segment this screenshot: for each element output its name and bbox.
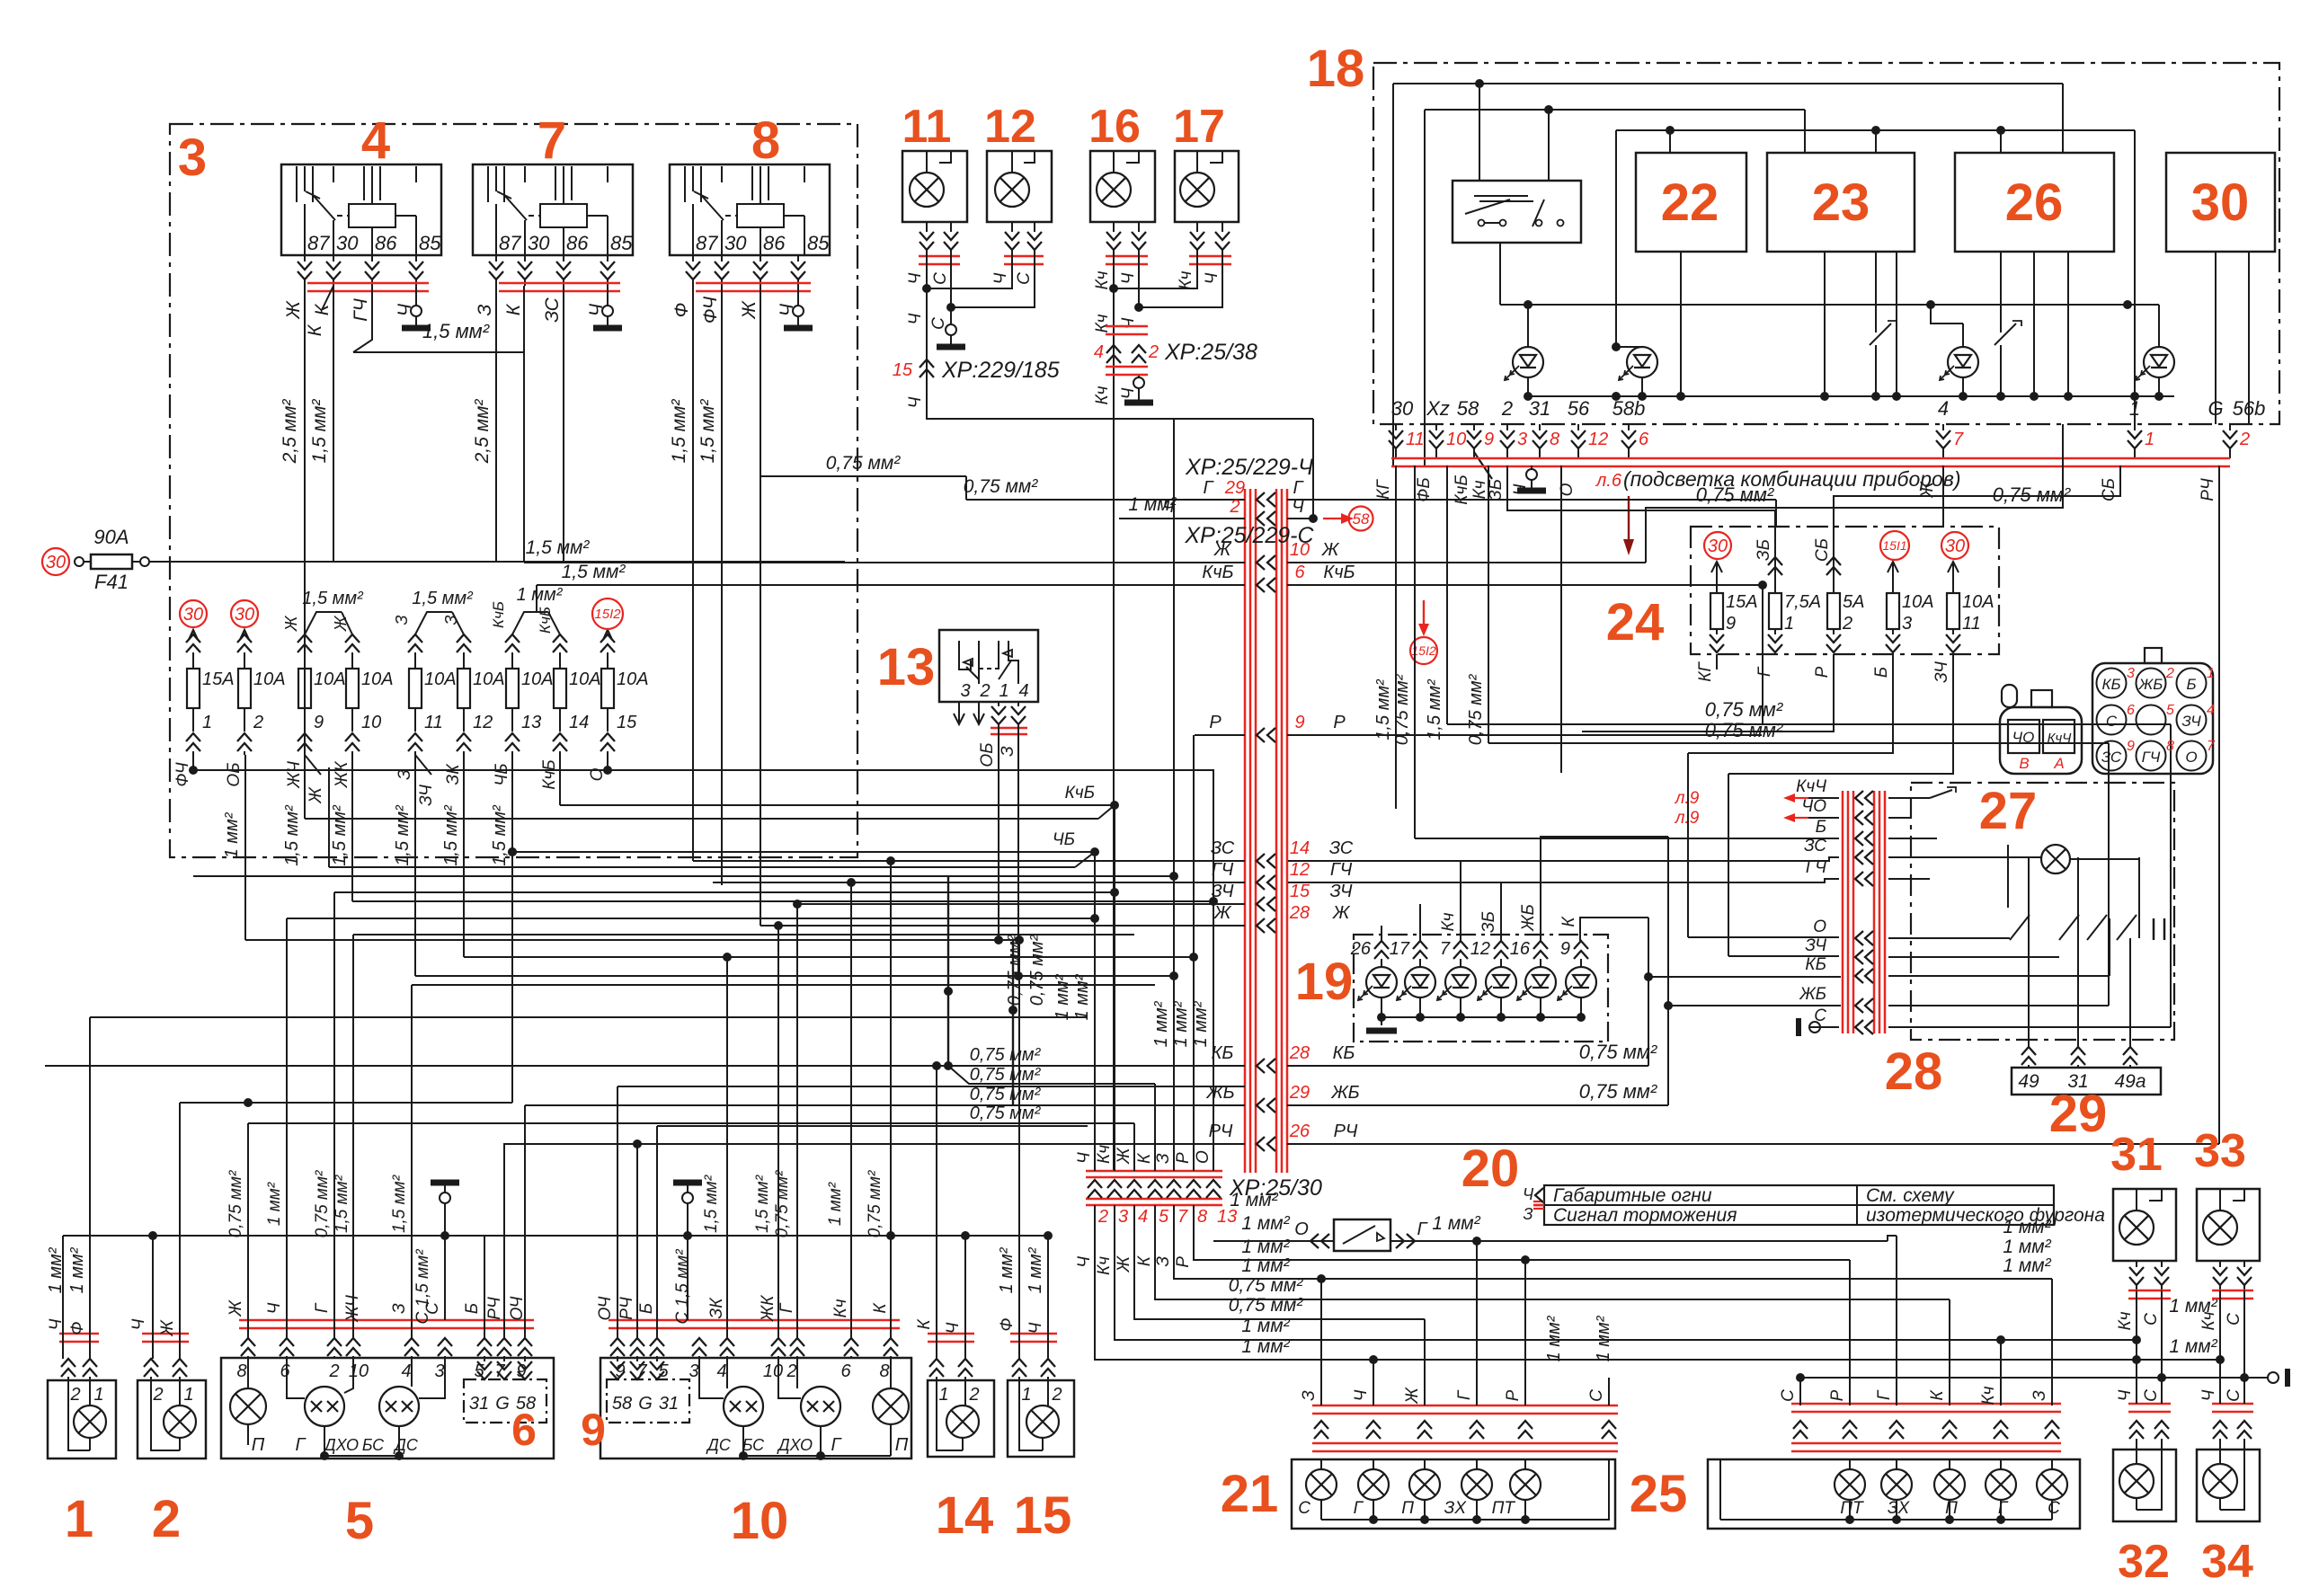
wire from KchB node down xyxy=(1762,585,1764,724)
svg-text:30: 30 xyxy=(1708,536,1728,556)
svg-text:2: 2 xyxy=(1051,1385,1062,1405)
svg-text:ЧО: ЧО xyxy=(2012,729,2035,746)
lamp 1 wires xyxy=(61,1359,76,1367)
box27 row КчЧ xyxy=(1855,791,1863,805)
cluster5 C ground xyxy=(444,1203,446,1338)
svg-text:12: 12 xyxy=(1470,939,1490,959)
svg-text:9: 9 xyxy=(1726,614,1736,634)
svg-text:86: 86 xyxy=(375,232,397,254)
9-pin connector pinout xyxy=(2092,663,2213,774)
svg-text:Ж: Ж xyxy=(739,300,760,320)
svg-text:Кч: Кч xyxy=(1093,270,1112,289)
bracket feeds F11/F12 xyxy=(415,612,452,634)
svg-text:9: 9 xyxy=(1484,430,1494,449)
wire relay8-87 down xyxy=(692,286,694,861)
svg-text:КчЧ: КчЧ xyxy=(1796,777,1826,796)
lamp11 wires xyxy=(926,222,928,232)
svg-text:1 мм²: 1 мм² xyxy=(1230,1190,1278,1210)
lamp 34 box xyxy=(2197,1450,2260,1521)
svg-text:0,75 мм²: 0,75 мм² xyxy=(1579,1080,1657,1103)
svg-text:0,75 мм²: 0,75 мм² xyxy=(773,1170,792,1237)
wire box30 downs xyxy=(2215,252,2217,424)
svg-text:9: 9 xyxy=(1294,713,1304,732)
vertical 1127 xyxy=(1012,940,1014,1105)
svg-text:28: 28 xyxy=(1289,1043,1310,1063)
svg-text:1 мм²: 1 мм² xyxy=(1241,1213,1290,1234)
svg-text:С: С xyxy=(2225,1389,2243,1402)
lamp 14 box xyxy=(928,1380,994,1457)
svg-text:0,75 мм²: 0,75 мм² xyxy=(1229,1295,1303,1316)
svg-text:1,5 мм²: 1,5 мм² xyxy=(562,562,626,582)
lamp 32 box xyxy=(2113,1450,2176,1521)
svg-text:1: 1 xyxy=(1021,1385,1031,1405)
box19 ground xyxy=(1381,1017,1382,1025)
switch 20 row O-G xyxy=(1213,1240,1334,1242)
svg-text:ЗЧ: ЗЧ xyxy=(1329,882,1353,901)
svg-text:З: З xyxy=(1300,1390,1319,1401)
row Zh 10 xyxy=(524,562,1245,563)
cluster5 OCh riser xyxy=(524,1105,526,1338)
svg-text:10: 10 xyxy=(1290,540,1310,560)
svg-text:ФЧ: ФЧ xyxy=(173,762,192,786)
svg-text:7: 7 xyxy=(2207,739,2216,754)
svg-text:КчБ: КчБ xyxy=(537,607,554,634)
svg-text:30: 30 xyxy=(1391,397,1414,420)
svg-text:8: 8 xyxy=(1197,1207,1207,1227)
lamp12 wires xyxy=(1011,222,1013,232)
svg-text:30: 30 xyxy=(724,232,747,254)
headlamp cluster 5 box xyxy=(221,1358,554,1459)
svg-text:л.9: л.9 xyxy=(1675,789,1700,808)
svg-text:ДХО: ДХО xyxy=(323,1436,359,1454)
lamp 31 box xyxy=(2113,1189,2176,1261)
row 1375 main xyxy=(63,1235,1048,1237)
svg-text:ЗС: ЗС xyxy=(1329,838,1354,858)
svg-text:12: 12 xyxy=(473,713,493,732)
svg-text:ПТ: ПТ xyxy=(1492,1499,1516,1518)
svg-text:Ж: Ж xyxy=(1403,1387,1422,1405)
svg-text:85: 85 xyxy=(419,232,441,254)
svg-text:С: С xyxy=(929,317,948,330)
cluster5 lamp G/DXO xyxy=(305,1387,344,1426)
svg-text:15А: 15А xyxy=(202,669,235,689)
svg-text:ЗС: ЗС xyxy=(1804,837,1826,856)
row 1022 xyxy=(287,918,1095,919)
svg-text:ЖЧ: ЖЧ xyxy=(285,761,304,789)
svg-text:ЖБ: ЖБ xyxy=(2138,676,2163,693)
lamp 16 box xyxy=(1090,151,1155,222)
svg-text:ФЧ: ФЧ xyxy=(700,296,721,324)
svg-text:С: С xyxy=(2142,1313,2161,1326)
wire risers xyxy=(1479,84,1480,181)
svg-text:С: С xyxy=(1015,272,1034,285)
svg-text:Кч: Кч xyxy=(1979,1386,1998,1405)
svg-text:0,75 мм²: 0,75 мм² xyxy=(1696,483,1774,506)
svg-text:1: 1 xyxy=(202,713,212,732)
cluster21 lamp П xyxy=(1409,1469,1440,1500)
svg-text:Кч: Кч xyxy=(1439,912,1458,931)
svg-text:30: 30 xyxy=(336,232,359,254)
LED pin 12 xyxy=(1494,941,1508,949)
box27 capacitor sym xyxy=(2153,918,2155,940)
svg-text:56b: 56b xyxy=(2233,397,2266,420)
riser 4-wire xyxy=(1942,465,1944,527)
row 1122 ZhK10 xyxy=(463,956,465,958)
cluster21 feed wires xyxy=(1320,1279,1322,1405)
svg-text:4: 4 xyxy=(361,111,390,170)
svg-text:КчБ: КчБ xyxy=(490,601,507,628)
svg-text:ЗК: ЗК xyxy=(707,1297,726,1319)
svg-text:1 мм²: 1 мм² xyxy=(1594,1315,1613,1361)
svg-text:Ж: Ж xyxy=(1115,1147,1133,1165)
svg-text:З: З xyxy=(390,1303,409,1314)
svg-text:1 мм²: 1 мм² xyxy=(1171,1000,1191,1047)
svg-text:29: 29 xyxy=(1289,1083,1310,1103)
svg-text:2: 2 xyxy=(152,1385,163,1405)
row 1003 ZhK xyxy=(352,900,1213,902)
row O 857 xyxy=(193,769,1214,771)
rear lamp cluster 21 box xyxy=(1292,1459,1615,1529)
svg-text:1 мм²: 1 мм² xyxy=(517,585,564,605)
KB net riser xyxy=(1648,918,1649,1066)
row 827 xyxy=(1488,742,2109,744)
box19 feed wires xyxy=(1381,926,1382,941)
svg-text:К: К xyxy=(871,1302,890,1314)
svg-text:17: 17 xyxy=(1390,939,1410,959)
svg-text:Ч: Ч xyxy=(129,1318,148,1330)
svg-text:изотермического фургона: изотермического фургона xyxy=(1866,1205,2105,1226)
svg-text:17: 17 xyxy=(1173,101,1225,153)
box19 bottom bus xyxy=(1381,1016,1581,1018)
svg-text:В: В xyxy=(2019,755,2029,772)
svg-text:11: 11 xyxy=(1962,614,1981,634)
box27 switch top xyxy=(1930,790,1952,798)
svg-text:30: 30 xyxy=(1945,536,1965,556)
svg-text:6: 6 xyxy=(2127,703,2135,718)
red circle 30 above F2 xyxy=(231,600,258,627)
svg-text:Ж: Ж xyxy=(1213,903,1232,923)
svg-text:Ф: Ф xyxy=(68,1321,87,1334)
lamp 2 box xyxy=(138,1380,206,1459)
svg-text:6: 6 xyxy=(1639,430,1649,449)
svg-text:10А: 10А xyxy=(253,669,286,689)
cluster10 C ground xyxy=(687,1203,689,1320)
svg-text:6: 6 xyxy=(280,1361,290,1381)
svg-text:Ч: Ч xyxy=(2199,1389,2218,1401)
cluster21 lamp ПТ xyxy=(1510,1469,1541,1500)
svg-text:25: 25 xyxy=(1630,1465,1688,1523)
lamp16 ground xyxy=(1138,376,1140,377)
svg-text:0,75 мм²: 0,75 мм² xyxy=(1993,483,2071,506)
box27 row Б xyxy=(1855,831,1863,846)
2-pin connector pinout xyxy=(2000,707,2082,774)
lamp 11 box xyxy=(902,151,967,222)
svg-text:Ч: Ч xyxy=(906,272,925,284)
svg-text:10А: 10А xyxy=(473,669,505,689)
relay K8 pin wires xyxy=(692,255,694,262)
svg-text:86: 86 xyxy=(763,232,786,254)
svg-text:23: 23 xyxy=(1812,173,1870,232)
cluster25 lamp П xyxy=(1934,1469,1965,1500)
svg-text:Ч: Ч xyxy=(1075,1256,1094,1268)
lamp 15 box xyxy=(1008,1380,1074,1457)
svg-text:0,75 мм²: 0,75 мм² xyxy=(1229,1275,1303,1296)
relay K7 pin85 ground xyxy=(607,286,609,306)
cluster5 bottom bus xyxy=(248,1444,445,1446)
row 1040 xyxy=(353,934,1134,935)
svg-text:30: 30 xyxy=(235,605,254,625)
svg-text:ГЧ: ГЧ xyxy=(1806,858,1826,877)
svg-text:4: 4 xyxy=(716,1361,726,1381)
wire Ch bus to connector xyxy=(927,365,1313,419)
svg-text:5А: 5А xyxy=(1843,592,1864,612)
svg-text:10А: 10А xyxy=(521,669,554,689)
svg-text:2: 2 xyxy=(1097,1207,1108,1227)
connector chevrons below box18 xyxy=(1395,424,1397,430)
svg-text:Р: Р xyxy=(1828,1389,1847,1401)
cluster25 lamp С xyxy=(2037,1469,2067,1500)
box27 row ЧО xyxy=(1855,811,1863,825)
svg-text:Ч: Ч xyxy=(906,396,925,408)
svg-text:КБ: КБ xyxy=(1212,1043,1234,1063)
svg-text:1,5 мм²: 1,5 мм² xyxy=(309,399,330,464)
LED pin 16 xyxy=(1533,941,1548,949)
sub connector 9 xyxy=(617,1358,618,1361)
svg-text:Б: Б xyxy=(1872,667,1891,678)
svg-text:СБ: СБ xyxy=(2100,478,2119,501)
svg-text:2: 2 xyxy=(2165,666,2174,681)
row ChB 948 xyxy=(512,851,1095,853)
fuse box 24 dash-dot xyxy=(1691,527,1999,654)
svg-text:12: 12 xyxy=(984,101,1036,153)
svg-text:1 мм²: 1 мм² xyxy=(2003,1255,2051,1276)
O feed to box27 xyxy=(1687,753,1689,937)
svg-text:14: 14 xyxy=(569,713,589,732)
row ZhB 29 xyxy=(525,1104,1245,1106)
fuse F41 90A xyxy=(75,557,84,566)
svg-text:1: 1 xyxy=(65,1490,93,1548)
svg-text:ДХО: ДХО xyxy=(777,1436,813,1454)
riser verticals from box18 bus xyxy=(1395,465,1397,809)
svg-text:Ж: Ж xyxy=(332,615,350,632)
svg-text:ОЧ: ОЧ xyxy=(508,1296,527,1320)
svg-text:ЧБ: ЧБ xyxy=(493,763,511,785)
svg-text:5: 5 xyxy=(658,1361,669,1381)
svg-text:87: 87 xyxy=(696,232,718,254)
svg-text:Ф: Ф xyxy=(998,1317,1017,1331)
cluster21 lamp С xyxy=(1306,1469,1337,1500)
red wire bundle vertical xyxy=(1244,489,1247,1173)
svg-text:Ч: Ч xyxy=(265,1302,284,1314)
red circle 1512 above F15 xyxy=(592,598,623,629)
unit box 23 xyxy=(1767,153,1915,252)
svg-text:0,75 мм²: 0,75 мм² xyxy=(1466,673,1486,745)
svg-text:ЗХ: ЗХ xyxy=(1444,1499,1468,1518)
svg-text:1: 1 xyxy=(2207,666,2215,681)
svg-text:0,75 мм²: 0,75 мм² xyxy=(970,1065,1042,1085)
svg-text:(подсветка комбинации прибор: (подсветка комбинации приборов) xyxy=(1623,467,1961,491)
red circle 30 over F9 xyxy=(1704,532,1731,559)
svg-text:F41: F41 xyxy=(94,571,129,593)
svg-text:16: 16 xyxy=(1088,101,1141,153)
lamp 34 wires xyxy=(2213,1421,2227,1429)
svg-text:49: 49 xyxy=(2018,1071,2039,1092)
wire mid row xyxy=(1500,304,2159,306)
indicator LED 4 xyxy=(2144,347,2174,377)
riser to box27 right xyxy=(2170,724,2172,1027)
svg-text:ОБ: ОБ xyxy=(225,762,244,786)
svg-text:9: 9 xyxy=(581,1405,606,1455)
svg-text:58: 58 xyxy=(1353,510,1370,528)
lamp 14 wires xyxy=(929,1359,944,1367)
svg-text:ЧБ: ЧБ xyxy=(1053,830,1075,849)
row 965 diag xyxy=(329,866,1075,868)
svg-text:С 1,5 мм²: С 1,5 мм² xyxy=(413,1249,432,1325)
svg-text:9: 9 xyxy=(314,713,324,732)
svg-text:1 мм²: 1 мм² xyxy=(1072,973,1092,1020)
svg-text:К: К xyxy=(915,1318,934,1330)
svg-text:1,5 мм²: 1,5 мм² xyxy=(702,1175,721,1233)
label ZCH diag below F11 xyxy=(415,755,431,775)
svg-text:58: 58 xyxy=(1457,397,1479,420)
svg-text:16: 16 xyxy=(1510,939,1531,959)
indicator LED 2 xyxy=(1627,347,1657,377)
wire box23 downs xyxy=(1824,252,1826,396)
box13 pin arrows xyxy=(958,702,960,724)
lamp16/17 Kch junction xyxy=(1113,254,1115,1171)
svg-text:З: З xyxy=(1154,1256,1173,1267)
svg-text:86: 86 xyxy=(566,232,589,254)
box27 row ЗЧ xyxy=(1855,950,1863,964)
svg-text:К: К xyxy=(503,303,524,315)
svg-text:0,75 мм²: 0,75 мм² xyxy=(227,1170,245,1237)
fuse 24/3 xyxy=(1892,562,1894,593)
svg-text:8: 8 xyxy=(236,1361,246,1381)
svg-text:ЗС: ЗС xyxy=(2101,749,2122,766)
cluster5 Z riser xyxy=(411,985,413,1338)
svg-text:19: 19 xyxy=(1295,953,1354,1011)
svg-text:11: 11 xyxy=(424,713,443,732)
cluster5 ZhCh riser xyxy=(352,935,354,1338)
row Kch to lamp31 xyxy=(2001,1339,2137,1341)
fuse 24/9 xyxy=(1716,562,1718,593)
svg-text:Ч: Ч xyxy=(1026,1322,1045,1334)
svg-text:1,5 мм²: 1,5 мм² xyxy=(753,1175,772,1233)
svg-text:1: 1 xyxy=(183,1385,193,1405)
diag KB to K xyxy=(944,1061,953,1070)
wire top row B xyxy=(1425,109,1805,111)
svg-text:КчБ: КчБ xyxy=(1065,784,1095,802)
box29 chevrons xyxy=(2021,1047,2036,1055)
svg-text:10А: 10А xyxy=(314,669,346,689)
svg-text:10А: 10А xyxy=(424,669,457,689)
svg-text:4: 4 xyxy=(1938,397,1949,420)
svg-text:л.9: л.9 xyxy=(1675,809,1700,828)
svg-text:Б: Б xyxy=(1816,818,1826,837)
row 993 xyxy=(334,891,1115,893)
svg-text:ЖБ: ЖБ xyxy=(1330,1083,1359,1103)
svg-text:ЖК: ЖК xyxy=(333,760,351,788)
svg-text:27: 27 xyxy=(1979,782,2038,840)
svg-text:Р: Р xyxy=(1813,666,1832,678)
row ZS 958 xyxy=(693,860,1245,862)
svg-text:21: 21 xyxy=(1221,1465,1279,1523)
svg-text:11: 11 xyxy=(902,101,952,153)
row 911 diag xyxy=(305,818,1098,820)
svg-text:Ч: Ч xyxy=(1203,272,1222,284)
wire relay8-86 down xyxy=(760,286,761,926)
bracket feeds F9/F10 xyxy=(305,612,342,634)
svg-text:0,75 мм²: 0,75 мм² xyxy=(1705,698,1783,721)
svg-text:Р: Р xyxy=(1174,1256,1193,1268)
svg-text:К: К xyxy=(1135,1255,1154,1266)
svg-text:Габаритные огни: Габаритные огни xyxy=(1553,1185,1712,1206)
row 1227 xyxy=(180,1102,512,1104)
svg-text:ДС: ДС xyxy=(393,1436,419,1454)
svg-text:Ч: Ч xyxy=(906,313,925,324)
switch box 13 xyxy=(939,630,1038,702)
riser RCh right xyxy=(2218,465,2220,1144)
svg-text:1,5 мм²: 1,5 мм² xyxy=(669,399,689,464)
svg-text:9: 9 xyxy=(1560,939,1570,959)
relay K4 second K label xyxy=(322,286,333,310)
svg-text:С: С xyxy=(2225,1313,2243,1326)
cluster10 bottom bus xyxy=(743,1455,891,1457)
svg-text:БС: БС xyxy=(362,1436,385,1454)
svg-text:П: П xyxy=(252,1435,265,1455)
svg-text:1,5 мм²: 1,5 мм² xyxy=(526,537,591,558)
svg-text:ПТ: ПТ xyxy=(1840,1499,1864,1518)
riser SB to fuse xyxy=(1834,465,2120,593)
svg-text:6: 6 xyxy=(511,1405,537,1455)
svg-text:G: G xyxy=(638,1394,653,1414)
LED pin 26 xyxy=(1374,941,1389,949)
row C ground right xyxy=(1800,1377,2268,1379)
wire bottom bus 18 xyxy=(1526,395,2174,397)
svg-text:Ж: Ж xyxy=(283,300,304,320)
relay K4 xyxy=(281,164,441,255)
svg-text:10: 10 xyxy=(731,1492,789,1550)
feeds cluster5 risers xyxy=(247,1123,249,1338)
svg-text:0,75 мм²: 0,75 мм² xyxy=(826,453,901,474)
cluster25 lamp Г xyxy=(1986,1469,2016,1500)
svg-text:1 мм²: 1 мм² xyxy=(1241,1336,1290,1357)
svg-text:1,5 мм²: 1,5 мм² xyxy=(333,1175,351,1233)
switch contact a xyxy=(1876,319,1897,341)
wire relay4-30 down xyxy=(333,286,334,562)
svg-text:1 мм²: 1 мм² xyxy=(1241,1316,1290,1336)
label Zh diag below F9 xyxy=(305,755,321,775)
svg-text:22: 22 xyxy=(1661,173,1719,232)
svg-text:ЗЧ: ЗЧ xyxy=(1805,936,1826,955)
svg-text:2: 2 xyxy=(2239,430,2250,449)
svg-text:10А: 10А xyxy=(361,669,394,689)
svg-text:0,75 мм²: 0,75 мм² xyxy=(970,1104,1042,1123)
rear lamp cluster 25 box xyxy=(1708,1459,2080,1529)
red circle 30 above F1 xyxy=(180,600,207,627)
svg-text:30: 30 xyxy=(183,605,203,625)
svg-text:3: 3 xyxy=(689,1361,698,1381)
lamp 17 box xyxy=(1175,151,1239,222)
cluster10 lamp DXO/G xyxy=(801,1387,840,1426)
svg-text:1 мм²: 1 мм² xyxy=(67,1246,87,1293)
svg-text:9: 9 xyxy=(615,1361,625,1381)
svg-text:1,5 мм²: 1,5 мм² xyxy=(422,320,490,342)
cluster25 bottom bus xyxy=(2051,1500,2053,1520)
svg-text:КчБ: КчБ xyxy=(1202,563,1233,582)
svg-text:ОЧ: ОЧ xyxy=(596,1296,615,1320)
red bundle box27 xyxy=(1842,791,1844,1033)
